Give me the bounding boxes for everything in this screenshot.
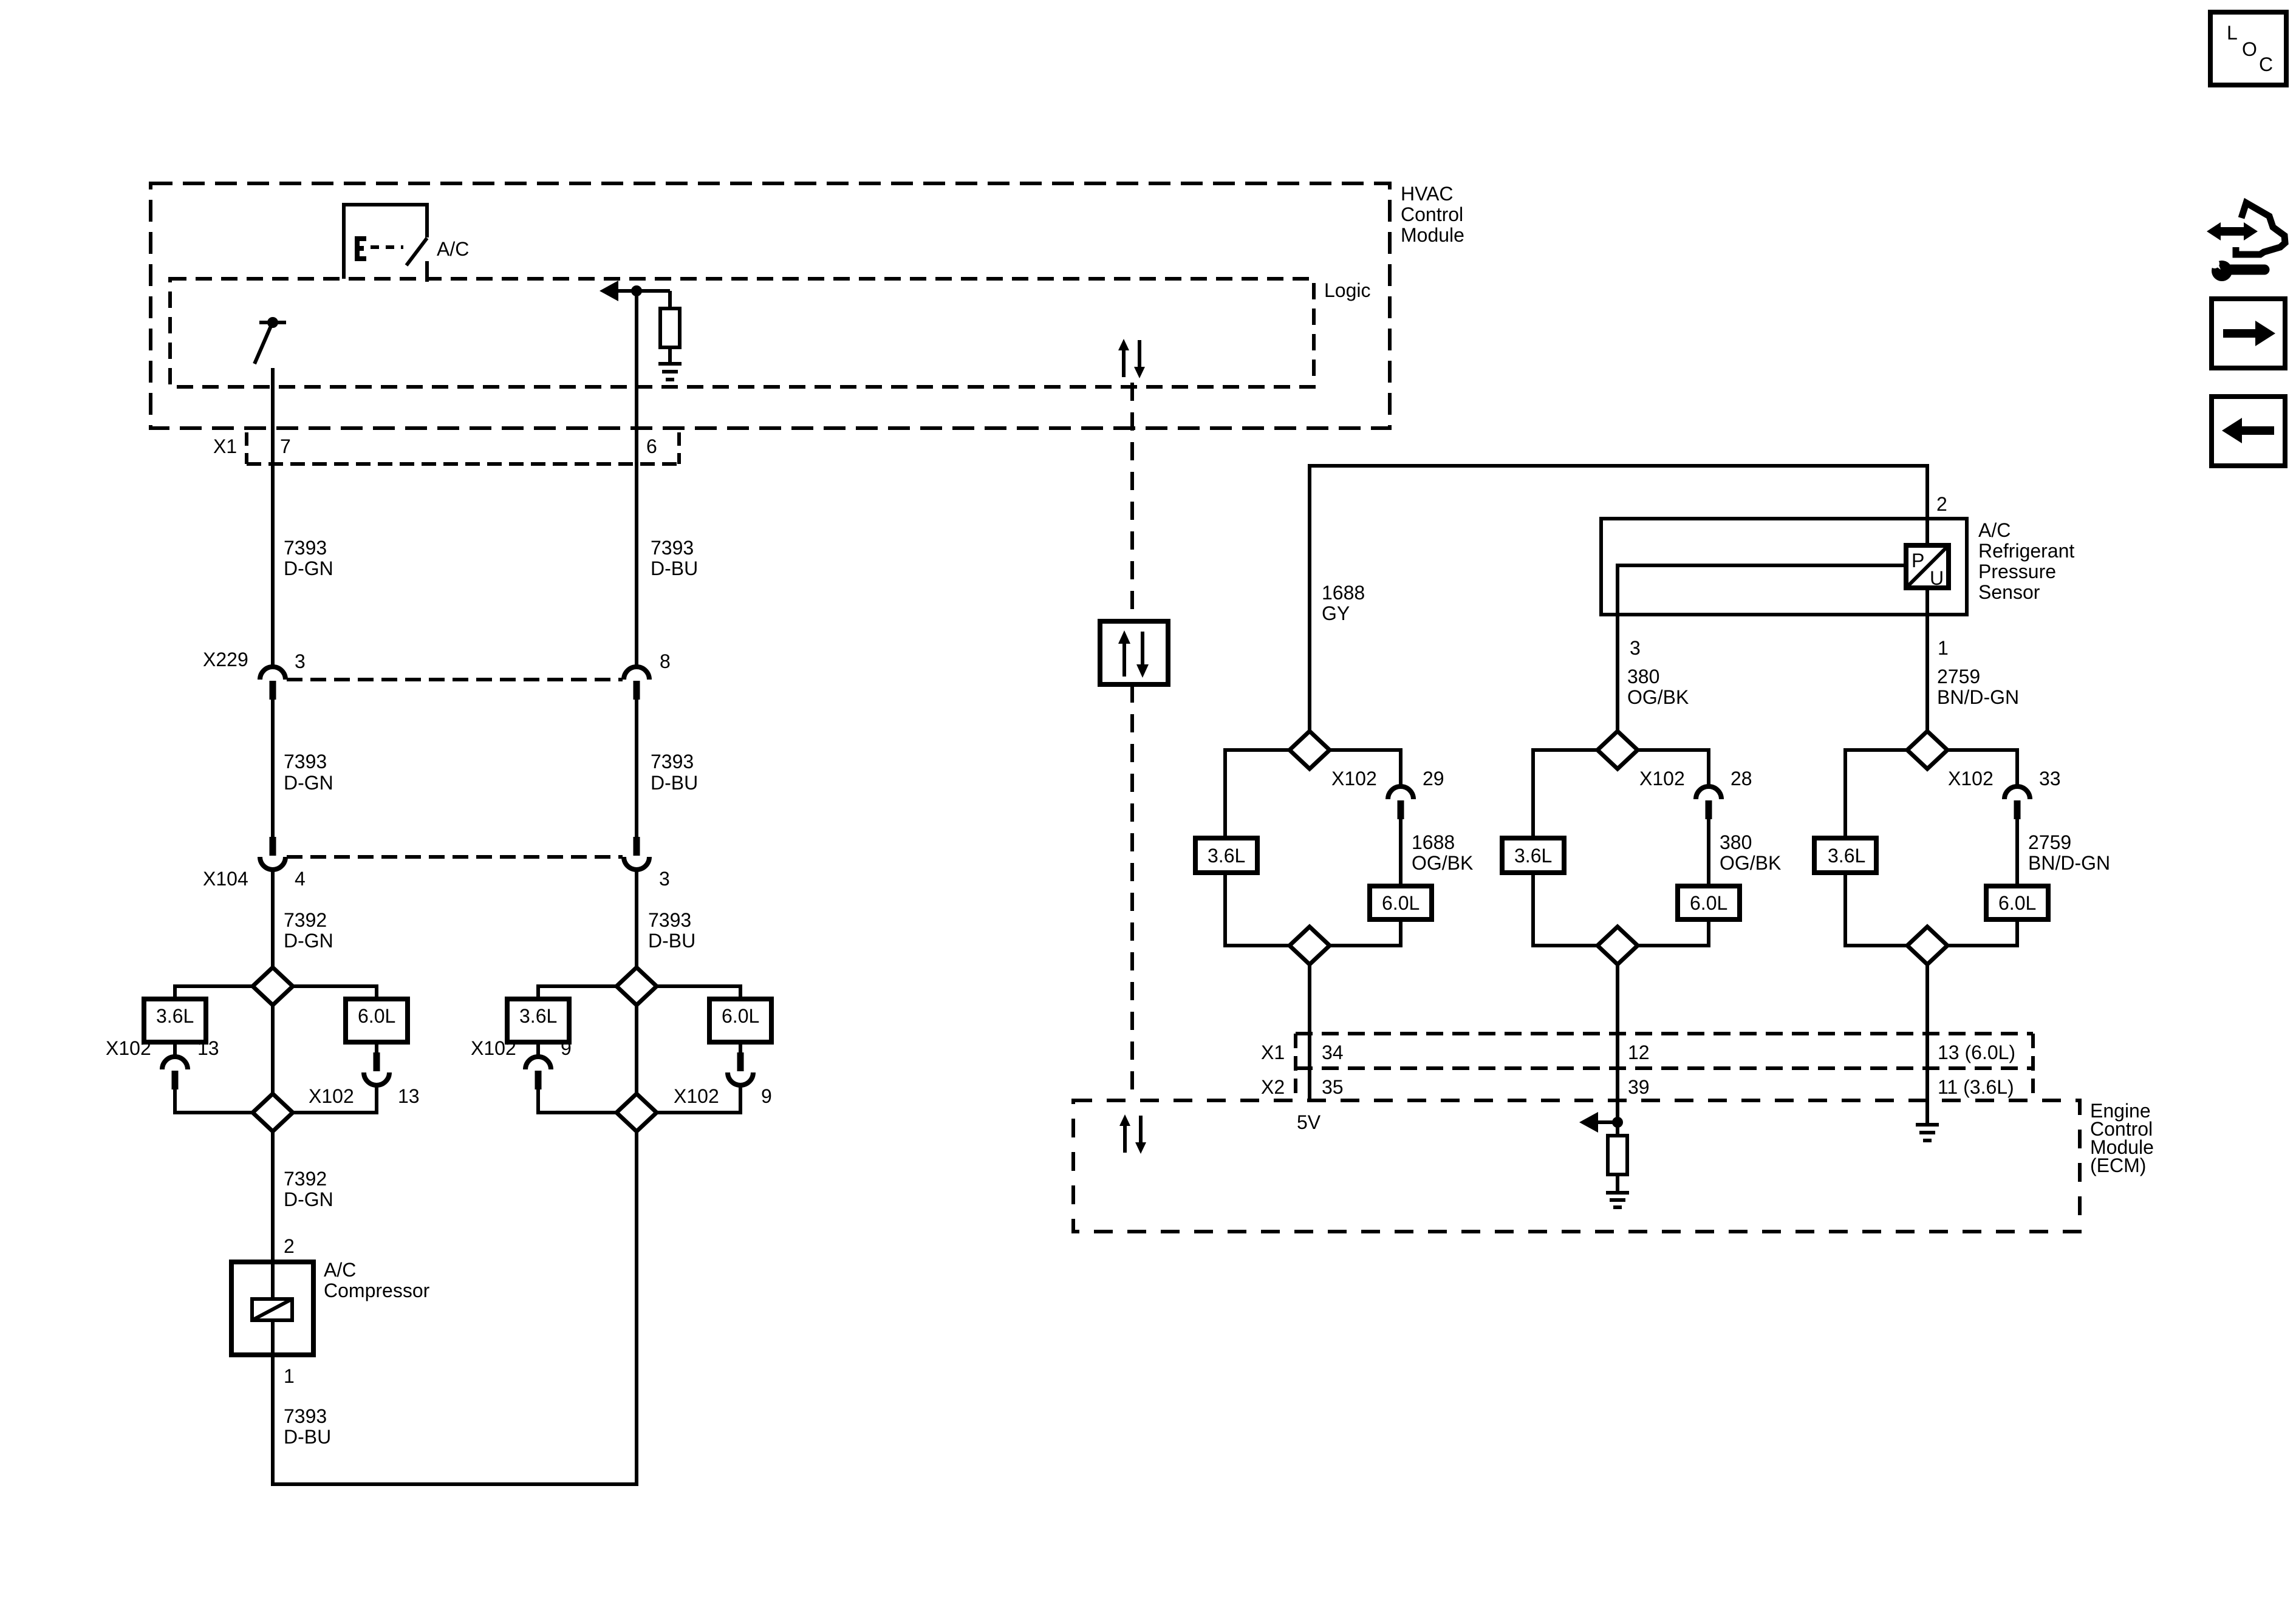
- wire 7393 D-BU (X104 to splice): [637, 870, 695, 967]
- svg-text:X102: X102: [1331, 768, 1377, 789]
- wire C1 to ECM 5V: [1308, 964, 1311, 1100]
- wire label 1688 OG/BK: [1401, 819, 1473, 886]
- svg-text:BN/D-GN: BN/D-GN: [1937, 686, 2019, 708]
- wire 7393 D-GN (X1-7 to X229-3): [284, 537, 333, 579]
- svg-text:Refrigerant: Refrigerant: [1978, 540, 2074, 562]
- serial data arrows (logic): [1118, 339, 1145, 378]
- svg-text:D-GN: D-GN: [284, 930, 333, 952]
- wire between right splices: [635, 1005, 638, 1094]
- svg-text:8: 8: [660, 650, 671, 672]
- svg-text:D-GN: D-GN: [284, 557, 333, 579]
- X1 connector row (HVAC): [213, 432, 679, 464]
- ground (logic): [658, 364, 682, 380]
- splice diamond C3 top: [1907, 731, 1947, 769]
- svg-text:D-BU: D-BU: [648, 930, 695, 952]
- svg-text:(ECM): (ECM): [2090, 1154, 2146, 1176]
- svg-text:2759: 2759: [1937, 666, 1980, 687]
- svg-text:OG/BK: OG/BK: [1627, 686, 1689, 708]
- svg-text:GY: GY: [1322, 602, 1350, 624]
- svg-text:OG/BK: OG/BK: [1720, 852, 1781, 874]
- svg-text:6.0L: 6.0L: [1382, 892, 1420, 914]
- wire C3 to ECM ground: [1925, 964, 1929, 1125]
- svg-text:D-GN: D-GN: [284, 772, 333, 794]
- wire label 2759 BN/D-GN (lower): [2017, 819, 2110, 886]
- C3 6.0L box: [1947, 886, 2048, 946]
- svg-text:1: 1: [1938, 637, 1949, 659]
- svg-text:U: U: [1930, 567, 1944, 589]
- svg-text:3.6L: 3.6L: [156, 1005, 194, 1027]
- splice diamond (right bottom): [617, 1094, 657, 1131]
- splice diamond C1 bottom: [1290, 927, 1330, 964]
- svg-text:39: 39: [1628, 1076, 1650, 1098]
- svg-text:OG/BK: OG/BK: [1412, 852, 1473, 874]
- svg-text:6.0L: 6.0L: [1998, 892, 2036, 914]
- ground (ECM resistor): [1606, 1193, 1629, 1207]
- wire 7393 D-GN (X229 to X104): [273, 700, 333, 837]
- connector X102 pin 33: [1947, 750, 2061, 819]
- svg-text:A/C: A/C: [324, 1259, 356, 1281]
- connector X104 pin 4: [203, 837, 306, 890]
- svg-text:7: 7: [280, 435, 291, 457]
- svg-text:3.6L: 3.6L: [1828, 845, 1865, 867]
- connector X102 pin 9 (6.0L right): [657, 1052, 772, 1113]
- 6.0L branch (left): [293, 986, 408, 1052]
- svg-text:7393: 7393: [284, 1405, 327, 1427]
- connector X102 pin 13 (3.6L left): [106, 1037, 253, 1113]
- svg-text:2: 2: [1936, 493, 1947, 515]
- wire sensor 5V feed (pin 2): [1310, 466, 1947, 731]
- svg-text:X104: X104: [203, 868, 248, 890]
- svg-text:BN/D-GN: BN/D-GN: [2028, 852, 2110, 874]
- splice diamond C3 bottom: [1907, 927, 1947, 964]
- svg-text:7393: 7393: [651, 537, 694, 559]
- svg-text:5V: 5V: [1297, 1111, 1321, 1133]
- svg-text:3: 3: [659, 868, 670, 890]
- resistor (logic): [660, 291, 680, 364]
- wire: logic switch to X1 pin 7: [271, 368, 275, 666]
- serial data arrows (ECM): [1119, 1114, 1146, 1154]
- C1 3.6L branch: [1195, 750, 1290, 946]
- svg-text:34: 34: [1322, 1042, 1344, 1063]
- svg-text:12: 12: [1628, 1042, 1650, 1063]
- svg-text:1688: 1688: [1322, 582, 1365, 604]
- connector X102 pin 13 (6.0L left): [293, 1052, 420, 1113]
- svg-text:D-BU: D-BU: [651, 772, 698, 794]
- svg-text:X2: X2: [1261, 1076, 1285, 1098]
- node: logic pull-up junction: [600, 281, 670, 301]
- svg-text:33: 33: [2039, 768, 2061, 789]
- svg-text:X102: X102: [1639, 768, 1685, 789]
- svg-text:Module: Module: [1401, 224, 1464, 246]
- svg-text:3.6L: 3.6L: [1514, 845, 1552, 867]
- svg-text:D-BU: D-BU: [284, 1426, 331, 1448]
- wire sensor ground (pin 3): [1618, 565, 1906, 731]
- svg-text:3.6L: 3.6L: [1208, 845, 1245, 867]
- serial data dashed wire (upper): [1130, 383, 1134, 621]
- svg-text:6.0L: 6.0L: [722, 1005, 759, 1027]
- wire between left splices: [271, 1005, 275, 1094]
- A/C Compressor: [231, 1259, 430, 1355]
- wire 7393 D-BU (X229 to X104): [637, 700, 698, 837]
- svg-text:P: P: [1912, 550, 1924, 571]
- svg-text:X1: X1: [1261, 1042, 1285, 1063]
- svg-text:7393: 7393: [651, 751, 694, 772]
- svg-text:28: 28: [1731, 768, 1752, 789]
- wire 7393 D-BU (compressor pin 1 loop): [273, 1131, 637, 1484]
- wire label 1688 GY: [1322, 582, 1365, 624]
- svg-text:Logic: Logic: [1324, 279, 1371, 301]
- svg-text:7393: 7393: [284, 537, 327, 559]
- connector X102 pin 9 (3.6L right): [471, 1037, 617, 1113]
- svg-text:A/C: A/C: [437, 238, 469, 260]
- wire 7392 D-GN (splice to compressor): [273, 1131, 333, 1262]
- ECM connector rows: [1261, 1034, 2033, 1100]
- wire label 380 OG/BK: [1627, 666, 1689, 708]
- svg-text:9: 9: [761, 1085, 772, 1107]
- splice diamond C2 top: [1597, 731, 1638, 769]
- svg-text:X1: X1: [213, 435, 237, 457]
- wire sensor signal (pin 1): [1927, 588, 1949, 731]
- svg-text:35: 35: [1322, 1076, 1344, 1098]
- X229 dashed tie: [287, 678, 623, 681]
- connector X102 pin 29: [1330, 750, 1444, 819]
- svg-text:X102: X102: [309, 1085, 354, 1107]
- svg-text:Pressure: Pressure: [1978, 561, 2056, 582]
- connector X104 pin 3: [624, 837, 670, 890]
- svg-text:D-BU: D-BU: [651, 557, 698, 579]
- svg-text:4: 4: [295, 868, 306, 890]
- svg-text:6: 6: [646, 435, 657, 457]
- svg-text:29: 29: [1423, 768, 1444, 789]
- wrench icon: [2205, 249, 2264, 281]
- C2 3.6L branch: [1502, 750, 1597, 946]
- C1 6.0L box: [1330, 886, 1432, 946]
- 6.0L branch (right): [657, 986, 771, 1052]
- svg-text:7392: 7392: [284, 909, 327, 931]
- forward reference arrow box: [2212, 299, 2285, 368]
- svg-text:13: 13: [197, 1037, 219, 1059]
- svg-text:7393: 7393: [648, 909, 691, 931]
- svg-text:6.0L: 6.0L: [358, 1005, 395, 1027]
- splice diamond (right top): [617, 967, 657, 1005]
- svg-text:1: 1: [284, 1365, 295, 1387]
- connector X229 pin 3: [203, 649, 306, 700]
- wire label 380 OG/BK (lower): [1709, 819, 1781, 886]
- HVAC Control Module box: [151, 183, 1464, 428]
- serial data dashed wire (lower): [1130, 684, 1134, 1100]
- svg-text:7392: 7392: [284, 1168, 327, 1190]
- A/C Refrigerant Pressure Sensor: [1601, 519, 2074, 615]
- svg-text:2759: 2759: [2028, 831, 2071, 853]
- svg-text:380: 380: [1720, 831, 1752, 853]
- svg-text:O: O: [2242, 38, 2257, 60]
- connector X229 pin 8: [624, 650, 671, 700]
- 3.6L branch (right): [507, 986, 617, 1056]
- svg-text:3: 3: [1630, 637, 1641, 659]
- splice diamond C2 bottom: [1597, 927, 1638, 964]
- splice diamond C1 top: [1290, 731, 1330, 769]
- svg-text:11 (3.6L): 11 (3.6L): [1938, 1076, 2014, 1098]
- 3.6L branch (left): [144, 986, 253, 1056]
- svg-text:6.0L: 6.0L: [1690, 892, 1727, 914]
- wire label 2759 BN/D-GN: [1937, 666, 2019, 708]
- svg-text:7393: 7393: [284, 751, 327, 772]
- ground (ECM pin 11/13): [1916, 1125, 1939, 1140]
- wire C2 to ECM: [1616, 964, 1619, 1136]
- svg-text:HVAC: HVAC: [1401, 183, 1454, 205]
- svg-text:L: L: [2227, 22, 2238, 44]
- C3 3.6L branch: [1814, 750, 1907, 946]
- svg-text:X102: X102: [674, 1085, 719, 1107]
- serial data connector box: [1100, 621, 1168, 684]
- svg-text:D-GN: D-GN: [284, 1188, 333, 1210]
- splice diamond (left bottom): [253, 1094, 293, 1131]
- svg-text:Compressor: Compressor: [324, 1280, 430, 1301]
- A/C switch S1: [344, 205, 469, 282]
- svg-text:1688: 1688: [1412, 831, 1455, 853]
- backward reference arrow box: [2212, 397, 2285, 466]
- svg-text:2: 2: [284, 1235, 295, 1257]
- node ECM pin 39 junction: [1579, 1112, 1623, 1133]
- Logic box: [170, 279, 1371, 387]
- data link icon (car with double arrow): [2207, 203, 2285, 254]
- Engine Control Module (ECM) box: [1073, 1100, 2154, 1232]
- C2 6.0L box: [1638, 886, 1740, 946]
- svg-text:X102: X102: [106, 1037, 151, 1059]
- svg-text:X229: X229: [203, 649, 248, 670]
- svg-text:Control: Control: [1401, 203, 1463, 225]
- sensor P/U transducer: [1906, 545, 1949, 589]
- logic switch: [255, 317, 286, 364]
- svg-text:3.6L: 3.6L: [519, 1005, 557, 1027]
- svg-text:X102: X102: [471, 1037, 516, 1059]
- svg-text:9: 9: [561, 1037, 572, 1059]
- svg-text:13 (6.0L): 13 (6.0L): [1938, 1042, 2015, 1063]
- wire 7393 D-BU (X1-6 to X229-8): [637, 291, 698, 666]
- svg-text:380: 380: [1627, 666, 1659, 687]
- splice diamond (left top): [253, 967, 293, 1005]
- svg-text:X102: X102: [1948, 768, 1994, 789]
- svg-text:Sensor: Sensor: [1978, 581, 2040, 603]
- svg-text:13: 13: [398, 1085, 420, 1107]
- wire 7392 D-GN (X104 to splice): [273, 870, 333, 967]
- connector X102 pin 28: [1638, 750, 1752, 819]
- svg-text:A/C: A/C: [1978, 519, 2011, 541]
- svg-text:C: C: [2259, 53, 2273, 75]
- svg-text:3: 3: [295, 650, 306, 672]
- resistor (ECM): [1608, 1136, 1627, 1192]
- X104 dashed tie: [287, 855, 623, 859]
- LOC reference box: [2210, 12, 2286, 85]
